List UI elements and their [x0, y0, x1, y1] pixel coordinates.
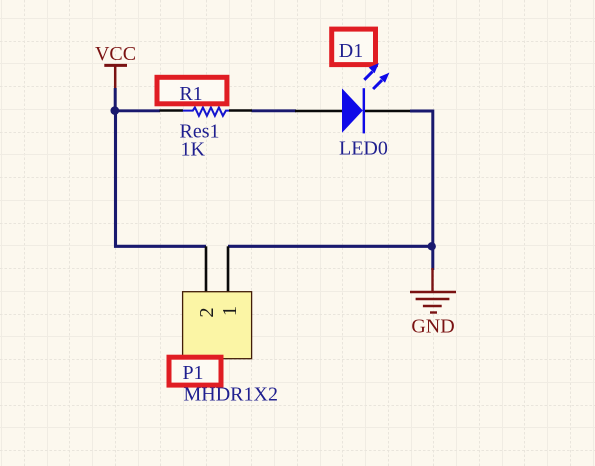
svg-text:2: 2	[196, 307, 218, 317]
connector P1 pin 2	[205, 246, 208, 292]
junction node at ground corner	[428, 242, 436, 250]
highlight box for designator P1	[169, 357, 221, 385]
wire: between resistor right pin and LED left pin	[252, 109, 297, 112]
svg-text:1K: 1K	[181, 139, 206, 161]
svg-text:P1: P1	[182, 362, 203, 384]
highlight box for designator R1	[157, 77, 227, 105]
svg-text:D1: D1	[339, 40, 363, 62]
LED light arrow 1	[364, 63, 379, 80]
wire: from LED right pin over right corner down to ground	[410, 111, 433, 270]
connector P1 pin 1	[227, 246, 230, 292]
LED D1 pin (cathode, right)	[364, 110, 410, 113]
svg-text:R1: R1	[179, 83, 202, 105]
resistor R1 pin 2 (right)	[229, 109, 252, 112]
resistor R1 pin 1 (left)	[160, 109, 184, 112]
wire: bottom-right horizontal from connector pin 1 to right corner	[228, 245, 432, 248]
power GND symbol	[410, 268, 456, 313]
svg-text:MHDR1X2: MHDR1X2	[184, 384, 278, 406]
highlight box for designator D1	[332, 29, 376, 65]
wire: top horizontal from junction to resistor left pin	[114, 109, 160, 112]
svg-text:VCC: VCC	[95, 43, 136, 65]
junction node at VCC/R1	[111, 106, 120, 115]
svg-text:GND: GND	[411, 316, 454, 338]
LED D1 pin (anode, left)	[295, 110, 342, 113]
resistor R1 zigzag body	[183, 107, 229, 115]
svg-text:LED0: LED0	[339, 138, 388, 160]
connector P1 body	[183, 292, 252, 359]
LED light arrow 2	[373, 73, 389, 89]
power VCC symbol	[104, 65, 127, 110]
LED D1 cathode bar	[363, 88, 365, 133]
wire: left vertical from VCC junction down and bottom-left run to connector pin 2	[116, 109, 207, 246]
svg-text:1: 1	[219, 306, 241, 316]
LED D1 triangle body	[342, 88, 363, 132]
